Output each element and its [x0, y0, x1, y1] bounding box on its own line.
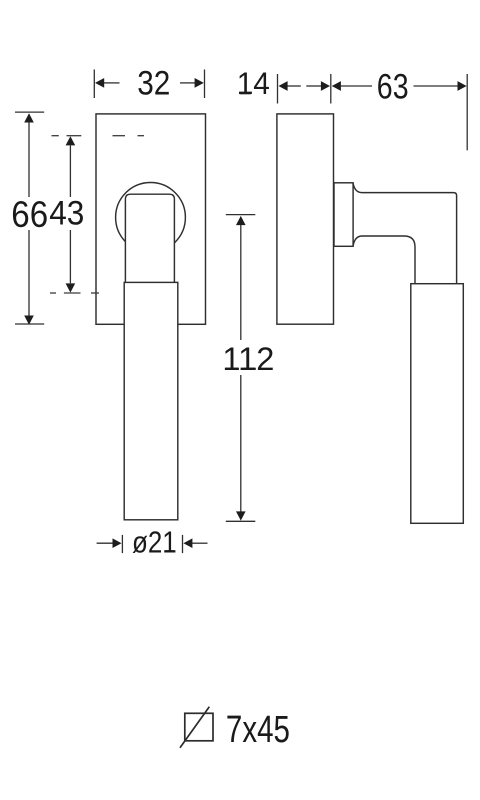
front view: rose circle: [116, 183, 186, 253]
svg-text:112: 112: [222, 340, 274, 377]
svg-text:7x45: 7x45: [226, 709, 290, 751]
side view: rose plate: [277, 114, 334, 324]
svg-text:63: 63: [377, 66, 409, 106]
side view: neck top profile: [353, 184, 457, 284]
side view: collar: [334, 183, 353, 247]
dashed reference line (plate top area): [52, 135, 145, 137]
side view: neck bottom profile: [353, 236, 415, 284]
svg-text:32: 32: [137, 63, 170, 102]
svg-text:14: 14: [237, 65, 270, 101]
dimension 112: [226, 215, 256, 522]
dimension ø21: [97, 535, 208, 553]
dashed reference marks (lower, 43 dim): [50, 292, 99, 294]
svg-text:43: 43: [49, 194, 84, 233]
spindle symbol: diagonal: [180, 707, 209, 748]
front view: rose plate: [96, 114, 206, 324]
spindle size label: [226, 709, 290, 751]
side view: grip shaft: [411, 284, 464, 524]
dimension 66: [15, 112, 44, 324]
dimension 32: [94, 70, 204, 99]
front view: grip shaft: [124, 282, 178, 519]
dimension 43: [69, 146, 71, 284]
dimension 63: [341, 74, 467, 150]
spindle symbol: square: [185, 713, 213, 741]
front view: handle neck: [125, 194, 174, 282]
dimension 14: [278, 74, 331, 104]
svg-text:66: 66: [11, 194, 48, 235]
svg-text:ø21: ø21: [132, 525, 177, 560]
